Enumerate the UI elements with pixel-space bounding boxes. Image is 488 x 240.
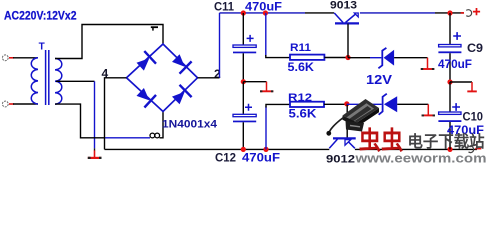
ground mid (red) <box>266 82 268 91</box>
transformer secondary winding <box>55 59 62 105</box>
wire secondary bottom (blue segment) <box>104 137 150 139</box>
terminal input top <box>2 55 8 61</box>
ground zener2 (red) <box>427 104 429 114</box>
wire bridge right to top rail <box>198 77 220 79</box>
junction dot base 9013 <box>345 55 350 60</box>
0V stub right to ground <box>450 81 472 83</box>
top rail left segment <box>220 12 306 14</box>
ground zener1 (red) <box>427 58 429 69</box>
capacitor C11 <box>242 13 244 45</box>
bottom rail left segment <box>105 148 330 150</box>
0V stub to ground <box>243 81 266 83</box>
capacitor C12 <box>242 82 244 114</box>
wire secondary top to bridge top <box>55 25 163 59</box>
svg-text:www.eeworm.com: www.eeworm.com <box>354 152 486 165</box>
wire primary bottom <box>13 103 38 105</box>
bridge diode D1 top-left <box>137 58 150 70</box>
output terminal - <box>469 146 474 152</box>
tap mark on top wire <box>151 26 158 28</box>
wire bridge left to bottom rail <box>105 78 127 150</box>
svg-text:电子下载站: 电子下载站 <box>408 132 485 151</box>
resistor R11 <box>265 13 267 56</box>
junction dot C10 bottom <box>447 147 452 152</box>
junction dot C12 bottom <box>241 147 246 152</box>
bottom rail right segment <box>355 148 477 150</box>
svg-text:9013: 9013 <box>330 0 357 12</box>
svg-text:1N4001x4: 1N4001x4 <box>162 119 218 131</box>
svg-text:R12: R12 <box>288 92 312 104</box>
svg-text:470uF: 470uF <box>242 150 280 164</box>
svg-text:9012: 9012 <box>326 153 355 164</box>
twisted loops mark <box>150 133 155 138</box>
junction dot R12 bottom <box>263 147 268 152</box>
transformer primary winding <box>31 58 38 104</box>
resistor R12 <box>265 107 267 150</box>
svg-text:C11: C11 <box>214 0 234 14</box>
junction dot C9 top <box>447 10 452 15</box>
junction dot 0V mid <box>241 79 246 84</box>
svg-text:C12: C12 <box>215 150 236 164</box>
zener ZD1 <box>348 57 370 59</box>
wire primary top <box>13 57 38 59</box>
ground mid right (red) <box>471 82 473 91</box>
transformer core <box>46 50 49 105</box>
svg-text:5.6K: 5.6K <box>289 108 318 120</box>
ground center tap (red) <box>94 150 96 157</box>
svg-text:C10: C10 <box>463 110 484 124</box>
top rail right segment <box>360 12 435 14</box>
bridge diode D2 top-right <box>172 54 185 66</box>
base wire 9013 <box>347 24 349 58</box>
wire center tap <box>56 80 95 82</box>
junction dot C9 C10 mid <box>447 79 452 84</box>
capacitor C10 <box>449 82 451 112</box>
base wire 9012 <box>346 104 348 139</box>
wire loops to bridge bottom <box>160 112 164 138</box>
bridge edges <box>127 44 198 112</box>
svg-text:R11: R11 <box>290 42 311 54</box>
svg-text:5.6K: 5.6K <box>288 62 315 74</box>
wire secondary bottom <box>55 104 104 138</box>
zener ZD2 <box>347 103 382 105</box>
capacitor C9 <box>449 13 451 44</box>
wire center tap drop (blue) <box>94 81 96 148</box>
bridge diode D4 bottom-right <box>172 92 185 105</box>
junction dot C11 top <box>241 10 246 15</box>
junction dot R11 top <box>263 10 268 15</box>
svg-text:AC220V:12Vx2: AC220V:12Vx2 <box>4 9 77 23</box>
watermark graduation cap <box>326 99 379 136</box>
svg-text:T: T <box>39 42 45 53</box>
junction dot base 9012 <box>344 101 349 106</box>
svg-text:C9: C9 <box>467 41 483 55</box>
bridge diode D3 bottom-left <box>137 88 150 100</box>
svg-text:12V: 12V <box>366 72 392 87</box>
terminal input bottom <box>2 101 8 107</box>
output terminal + <box>461 12 464 14</box>
svg-text:470uF: 470uF <box>438 59 472 71</box>
